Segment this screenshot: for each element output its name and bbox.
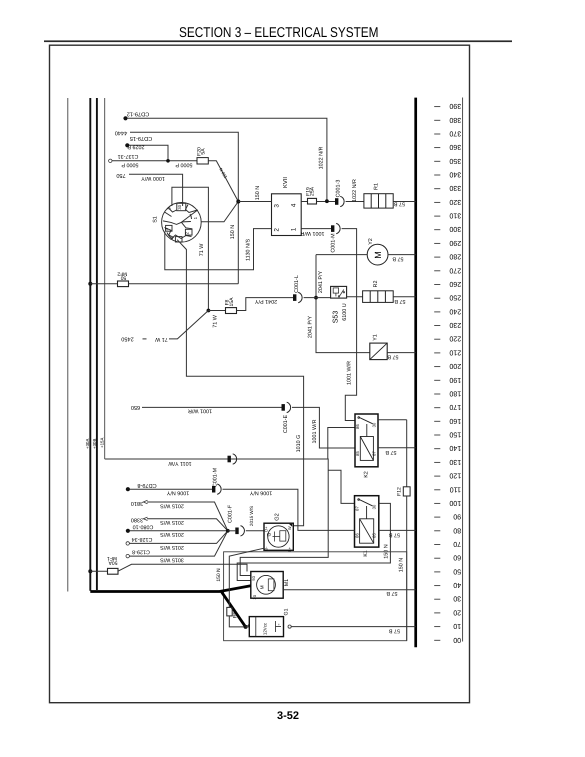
page header title [179,25,379,41]
svg-text:2015 W/S: 2015 W/S [160,502,184,508]
node C129-8 [126,554,129,557]
svg-text:5000 P: 5000 P [121,161,138,167]
svg-text:50A: 50A [108,560,118,566]
switch S1 [162,203,202,243]
svg-text:C001-M: C001-M [331,233,337,253]
svg-text:57 B: 57 B [385,449,396,455]
svg-text:2029 P: 2029 P [127,143,144,149]
svg-text:C080-10: C080-10 [133,523,154,529]
svg-text:1001 W/R: 1001 W/R [300,230,324,236]
svg-text:K2: K2 [364,471,370,478]
fuse MF1 50A [90,570,107,572]
wire 3015 W/S e [130,531,228,556]
svg-text:Y2: Y2 [368,238,374,245]
svg-text:57 B: 57 B [392,256,403,262]
junction [166,159,170,163]
wire 1022 N/R to R1 [346,201,364,203]
relay K1 [355,496,379,547]
svg-text:1001 W/R: 1001 W/R [312,419,318,443]
svg-text:71 W: 71 W [213,314,219,327]
header underline [44,40,512,42]
svg-text:350: 350 [449,157,461,165]
connector 0001-L [293,294,296,301]
svg-text:70: 70 [453,540,461,548]
resistor R5 [227,607,232,616]
svg-text:2015 W/S: 2015 W/S [249,506,254,526]
svg-text:25A: 25A [310,186,316,196]
svg-text:90: 90 [453,513,461,521]
svg-text:310: 310 [449,212,461,220]
junction [314,296,318,300]
wire Y2 left [316,254,367,256]
wire K2 pin to 427 [328,428,355,460]
svg-text:M: M [260,585,265,589]
relay KVII [272,194,302,236]
svg-text:SECTION 3 – ELECTRICAL SYSTEM: SECTION 3 – ELECTRICAL SYSTEM [179,25,379,41]
svg-text:C001-F: C001-F [228,504,234,523]
svg-text:1001 W/R: 1001 W/R [347,361,353,385]
svg-text:2450: 2450 [121,336,133,342]
resistor R2 [363,291,394,303]
node CD79-8 [126,487,130,491]
svg-text:1022 N/R: 1022 N/R [319,147,325,170]
svg-text:1011 Y/W: 1011 Y/W [168,460,192,466]
node junction 150N [236,200,240,204]
svg-text:3-52: 3-52 [277,710,299,722]
svg-text:80: 80 [453,526,461,534]
svg-text:F12: F12 [397,487,403,496]
svg-text:S1: S1 [153,216,159,223]
node CD79-15 [125,143,129,147]
node CD79-12 [123,116,127,120]
fuse F12 [406,420,408,487]
svg-text:71 W: 71 W [154,336,167,342]
svg-text:M1: M1 [284,579,290,586]
wire 4440 [130,132,238,283]
svg-text:5A: 5A [201,148,207,155]
svg-text:30: 30 [371,422,376,427]
svg-text:230: 230 [449,321,461,329]
svg-text:W: W [287,526,292,530]
svg-text:250: 250 [449,294,461,302]
wire Y1 to bus [387,352,416,354]
wire 71 W from S1 [177,240,303,526]
svg-text:190: 190 [449,376,461,384]
svg-text:CD79-15: CD79-15 [130,135,152,141]
svg-text:1: 1 [290,227,297,231]
svg-text:30: 30 [372,504,377,509]
fuse F19 25A [301,201,307,203]
svg-text:1006 N/Y: 1006 N/Y [249,490,272,496]
svg-text:00: 00 [453,636,461,644]
svg-text:6100 U: 6100 U [342,303,348,320]
svg-text:3: 3 [273,204,280,208]
svg-text:R2: R2 [373,281,379,288]
motor Y2 [367,244,388,265]
wire S1 top link [172,187,209,310]
wire 1011 Y/W [105,459,329,576]
measurement ruler (right side) [434,107,440,641]
wire KVII pin1 1001 W/R [301,228,331,230]
svg-text:S53: S53 [333,311,340,324]
svg-text:15A: 15A [229,297,235,307]
svg-text:D+: D+ [264,526,269,532]
svg-text:200: 200 [449,362,461,370]
connector 0001-3 [335,198,338,205]
svg-text:320: 320 [449,198,461,206]
wire 1022 N/R horizontal [127,118,327,201]
svg-text:30: 30 [252,594,257,599]
svg-text:+30A: +30A [85,439,90,449]
svg-text:2041 P/Y: 2041 P/Y [318,271,324,294]
wire 2041 P/Y vertical [316,255,370,353]
junction battery + [244,625,248,629]
power bus line 1 [67,98,69,592]
svg-text:340: 340 [449,171,461,179]
svg-text:240: 240 [449,307,461,315]
wire 5000 P [112,160,197,162]
svg-text:360: 360 [449,143,461,151]
wire R1 to bus [393,201,416,203]
svg-text:87: 87 [355,506,360,511]
svg-text:G1: G1 [284,608,290,615]
svg-text:C137-31: C137-31 [118,153,139,159]
svg-text:150 N: 150 N [255,186,261,200]
svg-text:2: 2 [273,228,280,232]
wire G1 minus to bus [288,625,291,628]
svg-text:B-: B- [264,546,269,551]
svg-text:85: 85 [355,451,360,456]
wire 150 N diagonal [208,161,238,202]
svg-text:4: 4 [291,203,298,207]
svg-text:180: 180 [449,390,461,398]
connector 0001-F [228,530,236,532]
switch S53 [331,286,347,298]
svg-text:390: 390 [449,102,461,110]
svg-text:150 N: 150 N [230,225,236,239]
relay K2 [355,414,378,467]
svg-text:210: 210 [449,348,461,356]
wire K2 87 to bus [378,447,416,449]
wire 2015 W/S d [130,531,228,544]
svg-text:87: 87 [371,451,376,456]
ruler right vertical line [462,98,464,642]
svg-text:3810: 3810 [131,500,143,506]
wire 2015 W/S c [130,530,228,532]
solenoid valve Y1 [370,343,387,360]
wire R2 to bus [393,296,416,298]
svg-text:20: 20 [453,608,461,616]
svg-text:30: 30 [177,204,182,209]
svg-text:85: 85 [372,533,377,538]
svg-text:57 B: 57 B [389,532,400,538]
svg-text:160: 160 [449,417,461,425]
svg-text:60: 60 [453,554,461,562]
svg-text:10: 10 [453,622,461,630]
svg-text:110: 110 [450,485,461,493]
junction fan [226,529,230,533]
svg-text:57 B: 57 B [386,590,397,596]
wire 2015 W/S b [147,519,228,531]
svg-text:650: 650 [131,404,140,410]
svg-text:CD79-8: CD79-8 [137,482,156,488]
svg-text:1022 N/R: 1022 N/R [352,179,358,202]
wire K2 30 to F12 branch [378,419,407,421]
svg-text:G: G [266,532,272,536]
svg-text:150 N: 150 N [216,568,222,582]
svg-text:CD79-12: CD79-12 [127,111,149,117]
wire 1006 N/Y [130,488,212,490]
wire MF2 to node [129,283,239,285]
power bus line +30B [96,98,98,590]
drawing border frame [50,45,470,703]
wire K1 85 to bus [379,529,416,531]
wire 2041 P/Y to connector [237,298,294,311]
svg-text:C001-M: C001-M [213,467,219,487]
svg-text:1130 N/S: 1130 N/S [246,239,252,261]
wire 2015 W/S a [147,502,228,531]
svg-text:150: 150 [449,431,461,439]
svg-text:40: 40 [453,581,461,589]
svg-text:270: 270 [449,266,461,274]
svg-text:+30B: +30B [92,439,97,449]
svg-text:50: 50 [121,275,127,281]
alternator G2 [264,523,293,550]
junction 71W/F8 [207,309,211,313]
svg-text:1006 N/Y: 1006 N/Y [166,490,189,496]
wire 150 N from MF1 [118,564,247,571]
svg-text:C001-3: C001-3 [336,180,342,198]
fuse F8 15A [208,310,225,312]
svg-text:C128-34: C128-34 [132,536,153,542]
svg-text:86: 86 [355,424,360,429]
svg-text:280: 280 [449,253,461,261]
svg-text:K1: K1 [363,550,369,557]
svg-text:1010 G: 1010 G [296,435,302,453]
svg-text:R5: R5 [233,612,239,619]
svg-text:2041 P/Y: 2041 P/Y [308,316,314,339]
junction on +30A [88,569,92,573]
svg-text:300: 300 [449,225,461,233]
wire S1 pin1 to node [201,202,238,222]
svg-text:-: - [277,624,283,626]
svg-text:+15A: +15A [100,438,105,448]
wire 150N to pin3 [238,201,271,203]
svg-text:2015 W/S: 2015 W/S [160,544,184,550]
svg-text:380: 380 [449,116,461,124]
svg-text:3015 W/S: 3015 W/S [160,557,184,563]
svg-text:260: 260 [449,280,461,288]
svg-text:5000 P: 5000 P [175,161,192,167]
wire M1 to bus [283,589,416,591]
wire Y2 to bus [388,254,416,256]
power bus line +15A [104,98,106,459]
svg-text:12Vcc: 12Vcc [263,622,268,635]
svg-text:C129-8: C129-8 [132,549,150,555]
svg-text:86: 86 [355,533,360,538]
svg-text:50: 50 [453,567,461,575]
svg-text:120: 120 [449,472,461,480]
svg-text:2041 P/Y: 2041 P/Y [255,298,278,304]
bus labels [85,438,105,449]
battery G1 12Vcc [249,617,283,637]
svg-text:C001-L: C001-L [294,275,300,293]
svg-text:170: 170 [449,403,461,411]
node C128-34 [126,542,129,545]
fuse F20 [197,158,208,164]
svg-text:220: 220 [449,335,461,343]
svg-text:Y1: Y1 [373,334,379,341]
wire 1000 W/Y [129,174,183,206]
svg-text:290: 290 [449,239,461,247]
svg-text:100: 100 [449,499,461,507]
svg-text:1001 W/R: 1001 W/R [188,408,212,414]
junction on +30A bus [88,282,92,286]
engine bay enclosure [224,552,407,641]
svg-text:57 B: 57 B [387,354,398,360]
svg-text:2015 W/S: 2015 W/S [160,531,184,537]
wire S53 to R2 [347,296,363,298]
svg-text:1000 W/Y: 1000 W/Y [141,175,165,181]
svg-text:50: 50 [251,575,256,580]
svg-text:330: 330 [449,184,461,192]
svg-text:370: 370 [449,130,461,138]
branch to K1 [328,470,354,503]
svg-text:M: M [373,251,383,259]
svg-text:57 B: 57 B [394,201,405,207]
svg-text:130: 130 [449,458,461,466]
svg-text:KVII: KVII [283,177,289,188]
battery cable thick [90,586,251,592]
svg-text:30: 30 [453,595,461,603]
wire K1 30 down to M1 [237,503,390,580]
wire G2 B- [229,548,264,607]
ground bus 57 B (thick vertical) [414,98,417,648]
svg-text:750: 750 [116,172,125,178]
wire 2450 stub [169,311,208,339]
svg-text:B+: B+ [287,546,292,552]
svg-text:71 W: 71 W [199,243,205,256]
svg-text:4440: 4440 [115,130,127,136]
node C080-10 [126,529,130,533]
svg-text:57 B: 57 B [389,628,400,634]
wire S1 lower-left to KVII pin2 [165,229,272,270]
svg-text:+: + [247,623,253,627]
resistor R1 [364,194,393,208]
svg-text:3380: 3380 [131,516,143,522]
junction [325,199,329,203]
power bus line +30A [89,98,91,591]
svg-text:2015 W/S: 2015 W/S [160,519,184,525]
svg-text:R1: R1 [374,183,380,190]
starter motor M1 [251,572,283,599]
svg-text:57 B: 57 B [394,298,405,304]
svg-text:140: 140 [449,444,461,452]
svg-text:150 N: 150 N [399,558,405,572]
fuse MF2 50 [90,283,117,285]
wire 2029 P [129,145,168,161]
svg-text:G2: G2 [275,513,281,520]
node C137-31 [109,159,112,162]
svg-text:C001-E: C001-E [283,414,289,433]
